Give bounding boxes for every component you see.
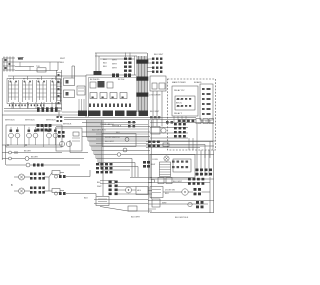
CONTROL-DASHED-BOX bbox=[150, 79, 216, 150]
node circle N4 bbox=[26, 163, 30, 167]
CONSOLE-BOX bbox=[86, 53, 136, 117]
module inner box bbox=[173, 159, 191, 172]
wire run 165 bbox=[6, 164, 80, 166]
BOTTOM-RIGHT bbox=[148, 150, 214, 219]
svg-text:WHT: WHT bbox=[112, 68, 117, 70]
relay K2 bbox=[64, 90, 75, 98]
svg-text:WHT: WHT bbox=[60, 58, 66, 60]
svg-text:BLK WHT BLK: BLK WHT BLK bbox=[175, 217, 189, 219]
svg-text:BLW: BLW bbox=[151, 164, 155, 166]
switch SW3 bbox=[37, 76, 47, 109]
svg-text:WH BLK: WH BLK bbox=[63, 124, 72, 126]
corner wires right bbox=[205, 123, 213, 159]
socket A pins bbox=[30, 173, 45, 180]
bottom pads bbox=[196, 201, 204, 208]
svg-text:BLK WHT: BLK WHT bbox=[105, 141, 115, 143]
svg-text:CONV: CONV bbox=[176, 106, 182, 108]
motor circle bbox=[182, 189, 188, 195]
node circle bbox=[151, 179, 155, 183]
strip foot pads bbox=[57, 116, 63, 122]
left wires to broil bbox=[72, 138, 80, 141]
bus under terminal row bbox=[64, 118, 196, 120]
HARNESS-RIBBON bbox=[95, 53, 152, 214]
plug comp A bbox=[54, 175, 57, 178]
tick verticals top bbox=[20, 62, 50, 71]
svg-text:WHT BLK: WHT BLK bbox=[5, 120, 15, 122]
wires row mid bbox=[148, 179, 214, 183]
svg-text:BOARD: BOARD bbox=[194, 81, 202, 84]
bottom comp box bbox=[152, 199, 160, 207]
top bus wires bbox=[95, 53, 147, 59]
wire top horizontal 1 bbox=[15, 61, 60, 63]
hi-limit box bbox=[136, 187, 148, 195]
LEFT-SECTION bbox=[2, 57, 86, 168]
ribbon wires bbox=[137, 53, 148, 112]
coil hatched bbox=[160, 162, 171, 177]
stack wires bbox=[126, 53, 131, 58]
bottom bus bbox=[150, 212, 214, 214]
RIGHT-COLUMN bbox=[149, 54, 166, 127]
transformer box bbox=[150, 76, 166, 91]
motor M1 bbox=[126, 187, 132, 193]
wire run 152 bbox=[2, 152, 62, 154]
switch bottom stubs bbox=[12, 102, 52, 109]
svg-text:BAKE: BAKE bbox=[176, 98, 182, 101]
node circle N3 bbox=[25, 157, 29, 161]
wire drop from bus bbox=[57, 62, 59, 70]
component stack top bbox=[124, 58, 132, 72]
svg-text:DOOR SWITCH: DOOR SWITCH bbox=[105, 137, 120, 139]
plug comp B bbox=[54, 192, 57, 195]
module inner pads bbox=[172, 161, 188, 169]
switch SW1 bbox=[9, 76, 19, 109]
wire lamp B bbox=[25, 190, 50, 192]
relay circle bbox=[161, 128, 166, 133]
element E3 bbox=[47, 127, 58, 145]
console mid pad row bbox=[89, 104, 131, 108]
svg-text:WHT: WHT bbox=[97, 186, 102, 188]
console comp E bbox=[90, 93, 97, 99]
pads lower bbox=[148, 141, 160, 148]
convection module box bbox=[150, 155, 195, 178]
wire row 5b bbox=[96, 143, 148, 145]
wires low bbox=[94, 200, 148, 204]
ribbon tie 3 bbox=[136, 93, 148, 97]
comps under right sub bbox=[150, 122, 213, 124]
component column wires bbox=[72, 66, 75, 78]
svg-text:RELAY 12V: RELAY 12V bbox=[174, 89, 185, 92]
dark cluster mid bbox=[143, 161, 150, 168]
junction J1 bbox=[7, 144, 9, 146]
junction J2 bbox=[25, 144, 27, 146]
console comp F bbox=[100, 93, 107, 99]
console outline bbox=[86, 75, 136, 117]
wire row 1 bbox=[82, 122, 136, 124]
strip dots bbox=[58, 74, 60, 104]
connector strip P1 bbox=[57, 70, 62, 110]
svg-text:BLK WHT: BLK WHT bbox=[154, 54, 164, 56]
vertical continue down bbox=[102, 120, 104, 196]
element E2 bbox=[27, 127, 38, 145]
BUNDLE-DOWN bbox=[87, 120, 216, 196]
OVEN-LAMPS bbox=[11, 171, 64, 195]
left sub box bbox=[172, 86, 198, 116]
K1 mark bbox=[66, 80, 69, 84]
small pads on wire bbox=[166, 121, 173, 124]
console comp B dark bbox=[98, 81, 105, 88]
pin rows bbox=[152, 58, 162, 73]
element E1 bbox=[9, 127, 20, 145]
door switch box bbox=[102, 134, 136, 147]
wires above console bbox=[96, 53, 99, 71]
fan circle bbox=[164, 156, 169, 161]
comp marks on 152 bbox=[15, 151, 17, 154]
wire lamp B out bbox=[49, 190, 64, 193]
component TOD on wire bbox=[37, 68, 46, 72]
relay K1 bbox=[64, 78, 75, 86]
svg-text:WHT: WHT bbox=[162, 203, 167, 205]
node circle N1 bbox=[9, 151, 12, 154]
console comp C bbox=[107, 82, 113, 88]
comp box bbox=[151, 127, 160, 135]
wire A bbox=[66, 170, 90, 177]
TERMINAL-ROW-MAIN bbox=[57, 99, 197, 122]
wire row 2b bbox=[102, 128, 148, 130]
wire lamp A out bbox=[49, 173, 64, 178]
pads mid small bbox=[128, 121, 135, 127]
svg-text:BLK: BLK bbox=[103, 63, 108, 65]
lamp B lead bbox=[14, 190, 19, 192]
svg-text:RELAY 2: RELAY 2 bbox=[174, 112, 183, 115]
RELAY-CLUSTER-RIGHT bbox=[146, 116, 213, 158]
vertical drops mid bbox=[189, 124, 197, 150]
svg-text:123456789012: 123456789012 bbox=[9, 105, 46, 107]
sub box stubs bbox=[174, 116, 210, 123]
wire strip bottom bbox=[58, 110, 60, 117]
comp sloped bbox=[128, 206, 137, 211]
console bottom-left drops bbox=[79, 99, 84, 111]
wire to console bbox=[8, 75, 86, 77]
svg-text:BLK: BLK bbox=[103, 59, 108, 61]
console comp A bbox=[90, 82, 96, 88]
wire row 3b bbox=[96, 133, 148, 135]
pad stack bbox=[174, 123, 186, 137]
dark cluster under bundle bbox=[96, 163, 113, 173]
wire row 2 bbox=[56, 126, 150, 128]
lamp DS1 bbox=[19, 174, 25, 180]
receptacle block dark bbox=[37, 124, 52, 132]
component box B1 bbox=[77, 86, 85, 95]
harness verticals down right bbox=[149, 120, 151, 213]
harness bends to right bbox=[87, 137, 216, 170]
svg-text:BK WH: BK WH bbox=[118, 79, 125, 81]
MID-BOTTOM-LEFT bbox=[54, 140, 115, 196]
broil circle 2 bbox=[66, 141, 71, 146]
comp box a bbox=[158, 178, 164, 184]
lower box marks bbox=[152, 190, 161, 193]
sloped wire bbox=[100, 207, 152, 212]
pads lower bbox=[194, 188, 202, 195]
junction pads on bus bbox=[37, 107, 58, 112]
dashed enclosure bbox=[168, 79, 216, 150]
connector blob above console bbox=[94, 71, 102, 75]
wire to relay stack bbox=[130, 177, 152, 179]
svg-text:BK WH RD: BK WH RD bbox=[90, 79, 100, 81]
lower box bbox=[150, 187, 163, 198]
right sub box bbox=[200, 84, 213, 120]
svg-text:BLK: BLK bbox=[103, 66, 108, 68]
mid node bbox=[117, 153, 121, 157]
node circle N2 bbox=[9, 157, 12, 160]
svg-text:WHT: WHT bbox=[18, 59, 24, 61]
ribbon tie 2 bbox=[136, 77, 148, 81]
wire bus under elements bbox=[2, 144, 62, 146]
left sub inner pads bbox=[177, 98, 191, 107]
stack side vertical bbox=[134, 56, 136, 75]
small circle comp bbox=[123, 148, 127, 152]
terminal block TB1 bbox=[3, 57, 15, 72]
bus double line under switches bbox=[4, 109, 62, 112]
wire row 4 bbox=[82, 136, 150, 138]
svg-text:TOD: TOD bbox=[36, 66, 41, 68]
wires under cluster bbox=[100, 181, 115, 184]
svg-text:HLS: HLS bbox=[137, 190, 142, 192]
drop verticals from buses bbox=[132, 159, 138, 178]
svg-text:WHT: WHT bbox=[112, 64, 117, 66]
wires down from transformer bbox=[153, 91, 162, 127]
comp right of lamps B bbox=[52, 189, 60, 193]
broil marks bbox=[73, 132, 79, 136]
wires lower bbox=[146, 142, 213, 148]
broil pads bbox=[58, 131, 65, 138]
wire row 3 bbox=[82, 131, 150, 133]
svg-text:WHT BLK: WHT BLK bbox=[25, 120, 35, 122]
svg-text:BLK WHT: BLK WHT bbox=[131, 217, 141, 219]
svg-text:WHT: WHT bbox=[112, 60, 117, 62]
pad grid mid bbox=[188, 178, 204, 185]
MID-CROSS-WIRES bbox=[56, 121, 150, 168]
right vertical drops bbox=[197, 150, 214, 213]
transformer sub 1 bbox=[152, 83, 157, 89]
K2 mark bbox=[66, 92, 69, 96]
right pad rows bbox=[196, 169, 213, 176]
comp right of lamps A bbox=[52, 171, 60, 175]
wires strip to console bbox=[62, 112, 86, 115]
relay pad stack bbox=[109, 181, 118, 196]
wire row 1b bbox=[102, 124, 148, 126]
svg-text:BLK WHT BLK: BLK WHT BLK bbox=[92, 130, 106, 132]
lamp A lead bbox=[14, 176, 19, 178]
svg-text:WHT BLK: WHT BLK bbox=[46, 120, 56, 122]
svg-text:BROIL: BROIL bbox=[176, 103, 183, 105]
row2 marks bbox=[92, 97, 124, 99]
bottom wires bbox=[148, 201, 214, 205]
switch SW2 bbox=[23, 76, 33, 109]
wire top horizontal 2 bbox=[15, 66, 34, 68]
comp box b bbox=[166, 178, 172, 184]
svg-text:BLK WHT: BLK WHT bbox=[150, 111, 160, 113]
svg-text:BLK: BLK bbox=[165, 193, 169, 195]
element box dividers bbox=[25, 125, 44, 147]
svg-text:BLK: BLK bbox=[60, 62, 65, 64]
vertical right mid bbox=[209, 177, 211, 213]
ribbon tie 1 bbox=[136, 60, 148, 64]
svg-text:BK WH: BK WH bbox=[24, 151, 31, 153]
wire join vertical bbox=[48, 177, 50, 191]
broil circle 1 bbox=[59, 141, 64, 146]
left wires from bundle bbox=[70, 140, 88, 153]
wire lamp A bbox=[25, 176, 50, 178]
svg-text:BLK: BLK bbox=[84, 198, 88, 200]
wire top horizontal 3 bbox=[15, 70, 58, 72]
wire motor bbox=[163, 191, 210, 193]
pads under left sub bbox=[178, 120, 194, 123]
lamp DS2 bbox=[19, 188, 25, 194]
console comp G bbox=[110, 93, 117, 99]
wire row 4b bbox=[96, 138, 148, 140]
left sub inner bbox=[175, 96, 195, 110]
left box bbox=[96, 197, 109, 206]
console comp H bbox=[120, 93, 127, 99]
console top pads bbox=[112, 74, 131, 78]
surface element box bbox=[6, 125, 62, 147]
right sub rows bbox=[202, 88, 211, 115]
pads on bus left bbox=[150, 116, 160, 118]
marks on lower wires bbox=[163, 143, 169, 147]
switch SW4 bbox=[51, 76, 61, 109]
svg-text:DOOR SW: DOOR SW bbox=[165, 190, 175, 192]
wire B bbox=[66, 194, 96, 197]
left stub bbox=[148, 208, 156, 210]
svg-text:LOW DRIVE: LOW DRIVE bbox=[149, 95, 161, 97]
svg-text:WHT BLK: WHT BLK bbox=[112, 126, 122, 128]
svg-text:CONV: CONV bbox=[152, 159, 158, 161]
wire L1 left bus bbox=[1, 58, 3, 160]
left box marks bbox=[98, 199, 107, 202]
wires mid bbox=[118, 183, 152, 195]
vertical harness wires bbox=[87, 120, 102, 170]
main terminal blocks bbox=[78, 111, 148, 117]
socket B pins bbox=[30, 187, 45, 194]
broil box bbox=[56, 128, 82, 151]
svg-text:MAIN POWER: MAIN POWER bbox=[172, 81, 186, 84]
svg-text:BLK: BLK bbox=[116, 132, 121, 134]
CENTER-BOTTOM bbox=[84, 159, 152, 219]
comp marks on 165 bbox=[33, 164, 44, 167]
switch bank enclosure bbox=[7, 79, 61, 104]
wire rows bbox=[150, 128, 188, 139]
bottom circle bbox=[188, 202, 192, 206]
vertical link left bbox=[5, 145, 7, 165]
MID-CONNECTOR bbox=[57, 58, 87, 117]
wire run 158 bbox=[2, 158, 84, 160]
transformer sub 2 bbox=[159, 83, 165, 89]
component B1 inner bbox=[78, 88, 84, 91]
svg-text:BK WH: BK WH bbox=[31, 157, 38, 159]
svg-text:BLK WHT: BLK WHT bbox=[173, 181, 183, 183]
wire under bus bbox=[2, 114, 62, 116]
small circle comp 2 bbox=[125, 138, 129, 142]
ribbon to pins links bbox=[147, 59, 152, 72]
